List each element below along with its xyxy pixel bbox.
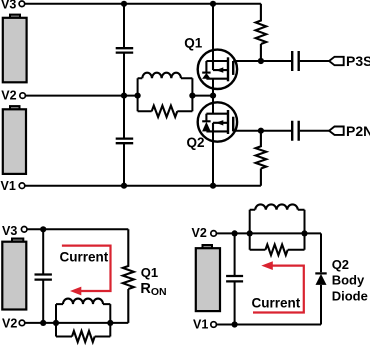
junction midnode bbox=[210, 93, 216, 99]
resistor R-top bbox=[256, 4, 267, 61]
junction gate1/res bbox=[258, 58, 264, 64]
capacitor C1 bbox=[116, 48, 134, 52]
terminal V3 bbox=[19, 1, 25, 7]
terminal V1 bbox=[19, 183, 25, 189]
junction Q1 drain bbox=[210, 1, 216, 7]
junction Q2 source bbox=[210, 183, 216, 189]
red arrowhead (lower right) bbox=[261, 261, 273, 270]
diode Q2 body cathode bar bbox=[315, 272, 326, 274]
wire V1 row (lower right) bbox=[217, 324, 321, 326]
terminal V2 (lower right) bbox=[211, 231, 217, 237]
inductor (lower left) bbox=[63, 299, 103, 305]
resistor (lower right loop) bbox=[265, 245, 287, 256]
wire loop frame bbox=[138, 78, 193, 111]
wire loop to midnode bbox=[192, 95, 213, 97]
svg-text:Q1: Q1 bbox=[141, 265, 158, 280]
junction loop left (lower left) bbox=[53, 320, 59, 326]
wire center rail upper bbox=[123, 4, 125, 186]
terminal V2 (lower left) bbox=[19, 320, 25, 326]
terminal V2 bbox=[20, 93, 26, 99]
resistor Q1 RON bbox=[123, 229, 134, 323]
junction V2/rail (lower left) bbox=[40, 320, 46, 326]
svg-text:V3: V3 bbox=[2, 224, 17, 238]
svg-text:Body: Body bbox=[332, 273, 365, 288]
svg-text:P2N: P2N bbox=[346, 123, 370, 139]
wire V2 row (lower right) bbox=[217, 232, 321, 234]
svg-text:Diode: Diode bbox=[332, 288, 368, 303]
svg-text:Q2: Q2 bbox=[187, 135, 205, 150]
junction loop left (lower right) bbox=[247, 230, 253, 236]
diode Q2 body triangle bbox=[316, 274, 327, 285]
capacitor (lower left) bbox=[35, 275, 52, 280]
terminal tag P2N bbox=[329, 127, 344, 135]
wire V2 row (lower left) bbox=[25, 322, 128, 324]
svg-text:V1: V1 bbox=[193, 318, 208, 332]
svg-text:V2: V2 bbox=[2, 316, 17, 330]
svg-text:Q2: Q2 bbox=[332, 257, 349, 272]
junction V1/rail (lower right) bbox=[232, 321, 238, 327]
resistor damping bbox=[152, 106, 178, 117]
transistor Q1 bbox=[198, 50, 237, 89]
capacitor C4 bbox=[292, 121, 299, 141]
wire left rail (lower left) bbox=[42, 229, 44, 323]
junction loop right (lower left) bbox=[107, 320, 113, 326]
red current path (lower right) bbox=[253, 266, 304, 313]
wire Q1 gate bbox=[233, 60, 261, 62]
wire Q2 drain lead bbox=[212, 96, 214, 114]
terminal V3 (lower left) bbox=[21, 227, 27, 233]
wire Q2 gate bbox=[233, 130, 261, 132]
wire diode branch bottom bbox=[320, 285, 322, 325]
svg-text:P3S: P3S bbox=[346, 53, 370, 69]
inductor L1 bbox=[142, 73, 181, 79]
svg-text:V3: V3 bbox=[1, 0, 16, 11]
red arrowhead (lower left) bbox=[70, 287, 81, 296]
resistor R-bottom bbox=[256, 131, 267, 186]
wire V1 rail bbox=[25, 185, 261, 187]
wire Q2 source lead bbox=[212, 131, 214, 185]
junction V3/rail (lower left) bbox=[40, 226, 46, 232]
wire Q1 source lead bbox=[212, 79, 214, 96]
terminal V1 (lower right) bbox=[211, 322, 217, 328]
transistor Q2 bbox=[198, 102, 237, 141]
junction loop right bbox=[189, 93, 195, 99]
svg-text:RON: RON bbox=[140, 281, 166, 298]
red current path (lower left) bbox=[62, 246, 111, 291]
wire loop frame (lower right) bbox=[250, 210, 305, 250]
inductor (lower right) bbox=[255, 204, 298, 209]
wire diode branch top bbox=[320, 233, 322, 272]
wire Q1 drain lead bbox=[212, 4, 214, 61]
wire V2 to loop bbox=[26, 95, 138, 97]
junction V2/rail bbox=[121, 93, 127, 99]
junction V2/rail (lower right) bbox=[232, 230, 238, 236]
junction V1/rail bbox=[121, 183, 127, 189]
wire rail (lower right) bbox=[234, 233, 236, 324]
svg-text:Current: Current bbox=[60, 249, 109, 264]
wire V3 row (lower left) bbox=[27, 228, 128, 230]
svg-text:V2: V2 bbox=[192, 226, 207, 240]
resistor (lower left loop) bbox=[72, 331, 95, 342]
battery V2-V1 bbox=[3, 106, 26, 174]
junction loop left bbox=[135, 93, 141, 99]
wire P3S row bbox=[261, 60, 329, 62]
svg-text:V2: V2 bbox=[1, 89, 16, 103]
junction gate2/res bbox=[258, 128, 264, 134]
capacitor (lower right) bbox=[226, 276, 243, 281]
junction V3/rail bbox=[121, 1, 127, 7]
capacitor C2 bbox=[116, 139, 134, 144]
wire loop frame (lower left) bbox=[56, 304, 110, 336]
terminal tag P3S bbox=[329, 57, 344, 65]
wire V3 rail bbox=[25, 3, 261, 5]
battery V3-V2 bbox=[3, 15, 27, 83]
svg-text:V1: V1 bbox=[1, 179, 16, 193]
svg-text:Q1: Q1 bbox=[184, 35, 203, 50]
capacitor C3 bbox=[292, 51, 299, 71]
battery V3-V2 (lower left) bbox=[2, 239, 26, 310]
junction loop right (lower right) bbox=[301, 230, 307, 236]
battery V2-V1 (lower right) bbox=[196, 245, 220, 311]
wire P2N row bbox=[261, 130, 329, 132]
svg-text:Current: Current bbox=[252, 295, 301, 310]
